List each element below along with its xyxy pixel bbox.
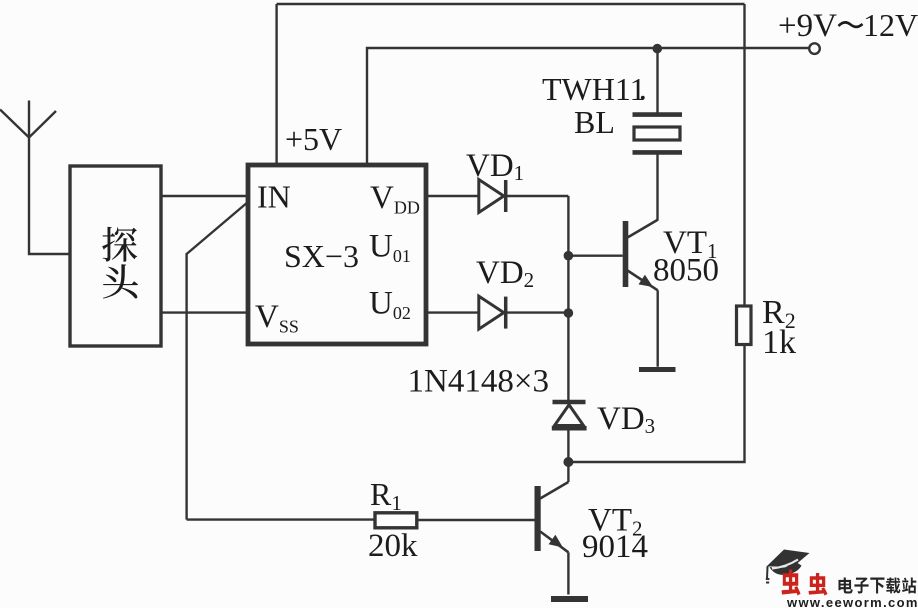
wire supply to buzzer (656, 49, 658, 114)
logo 电子下载站 (838, 578, 852, 594)
svg-text:1N4148×3: 1N4148×3 (408, 364, 549, 400)
transistor VT1 8050 (623, 220, 658, 290)
svg-text:BL: BL (574, 104, 615, 140)
node VT1 base junction (564, 251, 574, 261)
wire probe to IN (161, 195, 248, 197)
ground VT2 (551, 596, 588, 602)
node VD2 junction (564, 308, 574, 318)
diode VD2 (479, 296, 506, 329)
diode VD1 (479, 180, 506, 213)
svg-text:www.eeworm.com: www.eeworm.com (786, 595, 918, 608)
wire +9V supply rail (367, 48, 809, 165)
diode VD3 (552, 402, 587, 428)
antenna (0, 101, 56, 138)
wire antenna to probe (29, 138, 70, 255)
buzzer BL piezo plates (633, 112, 683, 117)
wire node to VT2 collector (567, 462, 569, 482)
wire VT2 emitter (567, 552, 569, 594)
terminal +9V~12V (809, 43, 820, 54)
svg-text:+9V: +9V (778, 8, 837, 44)
wire R2 bottom to node (568, 346, 744, 462)
wire R1 to VT2 base (417, 519, 536, 521)
resistor R2 (737, 306, 752, 345)
wire right vertical from top rail to R2 (743, 4, 745, 305)
wire to R1 (187, 518, 374, 520)
svg-text:8050: 8050 (653, 253, 719, 289)
wire IN to R1 diagonal (187, 202, 249, 520)
svg-text:9014: 9014 (582, 529, 648, 565)
wire buzzer to VT1 collector (656, 152, 658, 220)
op-amp U1 SX-3 box (248, 165, 426, 344)
svg-text:IN: IN (257, 179, 291, 215)
svg-text:TWH11: TWH11 (542, 71, 646, 107)
wire node bus VD1/VD2/VD3 (567, 196, 569, 401)
wire VD1 to node (505, 195, 569, 197)
logo 虫虫 (782, 569, 801, 595)
wire VD2 to node (505, 311, 569, 313)
probe box 探头 (70, 166, 161, 346)
wire +5V rail top (277, 4, 745, 165)
wire VT1 emitter (657, 290, 659, 367)
wire VT1 base (568, 254, 622, 256)
wire probe to VSS (161, 311, 248, 313)
wire VDD to VD1 (426, 195, 479, 197)
ground VT1 (639, 367, 676, 372)
label 头 (103, 264, 138, 298)
svg-text:12V: 12V (863, 7, 918, 43)
wire VD3 to node (567, 426, 569, 462)
transistor VT2 9014 (535, 482, 569, 552)
resistor R1 (375, 513, 417, 528)
svg-text:SX−3: SX−3 (284, 238, 359, 274)
svg-text:20k: 20k (368, 528, 418, 564)
logo graduation cap (766, 550, 810, 583)
svg-text:+5V: +5V (285, 121, 342, 157)
svg-text:1k: 1k (762, 324, 796, 361)
wire U02 to VD2 (426, 311, 479, 313)
junction buzzer/supply (653, 44, 663, 54)
label 探 (102, 227, 137, 262)
node VT2 collector junction (563, 457, 573, 467)
buzzer BL element (634, 127, 680, 140)
